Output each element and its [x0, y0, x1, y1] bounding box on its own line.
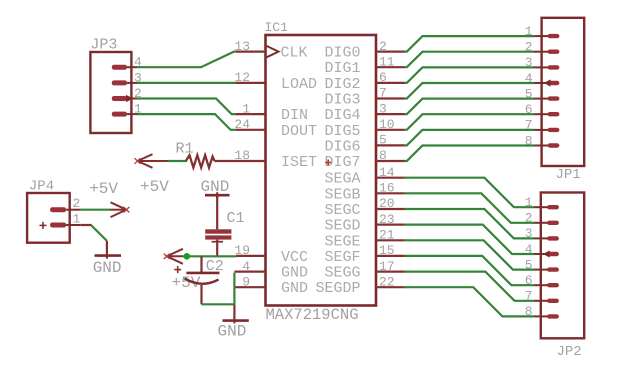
svg-text:8: 8 [379, 148, 387, 163]
IC1 pin 23 SEGD (right) [324, 212, 404, 235]
svg-text:+5V: +5V [140, 178, 169, 196]
svg-text:4: 4 [242, 259, 250, 274]
svg-text:VCC: VCC [281, 249, 308, 266]
connector JP3 [90, 52, 137, 133]
svg-text:ISET: ISET [281, 154, 317, 171]
svg-text:DIG2: DIG2 [324, 76, 360, 93]
svg-text:SEGB: SEGB [324, 186, 360, 203]
connector JP2 body [541, 193, 584, 339]
svg-text:SEGDP: SEGDP [315, 280, 360, 297]
JP2 pin 3 pad [525, 226, 559, 241]
svg-text:IC1: IC1 [265, 20, 289, 35]
svg-text:GND: GND [281, 265, 308, 282]
svg-text:14: 14 [379, 165, 395, 180]
ground symbol at JP4 [95, 241, 122, 259]
IC1 pin 6 DIG2 (right) [324, 70, 404, 93]
wire SEGDP to JP2 pin 8 [405, 287, 535, 316]
svg-text:MAX7219CNG: MAX7219CNG [266, 306, 359, 324]
svg-text:CLK: CLK [281, 45, 308, 62]
IC1 pin 22 SEGDP (right) [315, 274, 404, 297]
svg-text:2: 2 [73, 196, 81, 211]
wire DIG0 to JP1 pin 1 [405, 36, 535, 52]
svg-text:21: 21 [379, 228, 395, 243]
JP1 pin 3 pad [525, 55, 560, 70]
JP1 pin 4 pad [525, 71, 560, 87]
IC1 pin 4 GND (left) [234, 259, 308, 282]
svg-text:5: 5 [379, 133, 387, 148]
svg-text:24: 24 [234, 117, 250, 132]
capacitor C2 [174, 256, 219, 304]
svg-text:SEGG: SEGG [324, 265, 360, 282]
IC1 pin 16 SEGB (right) [324, 181, 404, 204]
svg-text:13: 13 [234, 39, 250, 54]
svg-text:1: 1 [73, 212, 81, 227]
svg-text:17: 17 [379, 259, 395, 274]
JP2 pin 5 pad [525, 257, 559, 272]
wire DIG6 to JP1 pin 7 [405, 130, 535, 146]
IC1 pin 8 DIG7 (right) [324, 148, 404, 171]
svg-text:10: 10 [379, 117, 395, 132]
wire JP3 pin 2 to IC1 DIN [137, 99, 237, 115]
wire DIG1 to JP1 pin 2 [405, 52, 535, 67]
svg-text:DIG3: DIG3 [324, 92, 360, 109]
wire DIG4 to JP1 pin 5 [405, 99, 535, 115]
supply +5V arrow (VCC net) [164, 249, 183, 264]
wire SEGE to JP2 pin 5 [405, 240, 535, 269]
wire DIG3 to JP1 pin 4 [405, 83, 535, 99]
IC1 pin 7 DIG3 (right) [324, 86, 404, 109]
svg-text:9: 9 [242, 274, 250, 289]
IC1 pin 11 DIG1 (right) [324, 54, 404, 77]
svg-text:R1: R1 [176, 141, 194, 158]
IC1 pin 9 GND (left) [234, 274, 308, 297]
svg-text:JP4: JP4 [29, 179, 54, 195]
IC1 pin 15 SEGF (right) [324, 243, 404, 266]
svg-text:SEGC: SEGC [324, 202, 360, 219]
wire DIG7 to JP1 pin 8 [405, 146, 535, 162]
wire SEGD to JP2 pin 4 [405, 225, 535, 254]
svg-text:1: 1 [242, 101, 250, 116]
svg-text:DIG1: DIG1 [324, 60, 360, 77]
svg-text:+5V: +5V [89, 180, 118, 198]
wire JP4 pin 1 to GND [80, 225, 107, 241]
JP2 pin 1 pad [525, 195, 559, 210]
svg-text:16: 16 [379, 181, 395, 196]
svg-text:DOUT: DOUT [281, 123, 317, 140]
connector JP1 body [542, 18, 585, 166]
svg-text:GND: GND [201, 178, 230, 196]
svg-text:SEGF: SEGF [324, 249, 360, 266]
IC1 pin 20 SEGC (right) [324, 196, 404, 219]
IC1 pin 19 VCC (left) [234, 243, 308, 266]
connector JP4 [27, 193, 80, 243]
svg-text:DIN: DIN [281, 107, 308, 124]
IC1 pin 21 SEGE (right) [324, 228, 404, 251]
IC1 pin 14 SEGA (right) [324, 165, 404, 188]
svg-text:JP3: JP3 [90, 37, 117, 54]
JP2 pin 4 pad [525, 242, 559, 258]
wire SEGF to JP2 pin 6 [405, 256, 535, 285]
IC1 pin 18 ISET (left) [234, 148, 317, 171]
svg-text:6: 6 [379, 70, 387, 85]
IC1 pin 24 DOUT (left) [234, 117, 317, 140]
svg-text:SEGE: SEGE [324, 233, 360, 250]
IC1 clock input marker [267, 46, 279, 57]
svg-text:GND: GND [218, 323, 247, 341]
svg-text:LOAD: LOAD [281, 76, 317, 93]
svg-text:C2: C2 [206, 258, 224, 275]
JP1 pin 7 pad [525, 118, 560, 133]
wire SEGG to JP2 pin 7 [405, 272, 535, 301]
JP2 pin 6 pad [525, 273, 559, 288]
svg-text:3: 3 [379, 101, 387, 116]
IC1 pin 1 DIN (left) [236, 101, 308, 124]
supply +5V arrow (JP4) [111, 202, 130, 217]
IC1 pin 10 DIG5 (right) [324, 117, 404, 140]
svg-text:22: 22 [379, 274, 395, 289]
svg-text:12: 12 [234, 70, 250, 85]
svg-text:JP2: JP2 [557, 344, 582, 360]
svg-text:20: 20 [379, 196, 395, 211]
capacitor C1 [205, 229, 231, 256]
svg-text:DIG6: DIG6 [324, 138, 360, 155]
svg-text:19: 19 [234, 243, 250, 258]
JP1 pin 6 pad [525, 102, 560, 117]
svg-text:7: 7 [379, 86, 387, 101]
svg-text:DIG4: DIG4 [324, 107, 360, 124]
IC1 pin 17 SEGG (right) [324, 259, 404, 282]
svg-text:23: 23 [379, 212, 395, 227]
svg-text:DIG5: DIG5 [324, 123, 360, 140]
JP1 pin 1 pad [525, 24, 560, 39]
JP2 pin 8 pad [525, 304, 559, 319]
svg-text:DIG0: DIG0 [324, 45, 360, 62]
svg-text:15: 15 [379, 243, 395, 258]
wire DIG2 to JP1 pin 3 [405, 67, 535, 83]
svg-text:GND: GND [93, 259, 122, 277]
wire C2 to GND net [202, 273, 235, 305]
wire +5V arrow to R1 [168, 160, 187, 162]
IC1 pin 3 DIG4 (right) [324, 101, 404, 124]
JP1 pin 8 pad [525, 133, 560, 148]
IC IC1 MAX7219CNG body [266, 35, 377, 306]
JP2 pin 7 pad [525, 289, 559, 304]
svg-text:SEGA: SEGA [324, 171, 360, 188]
wire DIG5 to JP1 pin 6 [405, 114, 535, 130]
svg-text:JP1: JP1 [556, 167, 581, 183]
wire +5V to IC1 VCC [183, 255, 237, 257]
ground symbol above C1 [205, 192, 230, 229]
svg-text:GND: GND [281, 280, 308, 297]
IC1 pin 13 CLK (left) [234, 39, 307, 62]
wire SEGC to JP2 pin 3 [405, 209, 535, 238]
IC1 pin 5 DIG6 (right) [324, 133, 404, 156]
JP1 pin 5 pad [525, 86, 560, 101]
svg-text:2: 2 [379, 39, 387, 54]
wire JP3 pin 1 to IC1 DOUT [137, 114, 237, 130]
IC1 pin 12 LOAD (left) [234, 70, 317, 93]
ground symbol below IC [223, 304, 249, 323]
JP1 pin 2 pad [525, 40, 560, 55]
wire SEGB to JP2 pin 2 [405, 193, 535, 223]
svg-text:SEGD: SEGD [324, 218, 360, 235]
svg-text:18: 18 [234, 148, 250, 163]
wire JP4 pin 2 to +5V [80, 209, 111, 211]
JP2 pin 2 pad [525, 211, 559, 226]
red plus marker at DIG7 [325, 160, 331, 166]
IC1 pin 2 DIG0 (right) [324, 39, 404, 62]
resistor R1 [186, 155, 236, 167]
junction dot VCC net [184, 253, 191, 260]
wire JP3 pin 3 to IC1 LOAD [137, 82, 237, 84]
svg-text:C1: C1 [227, 210, 245, 227]
svg-text:11: 11 [379, 54, 395, 69]
wire JP3 pin 4 to IC1 CLK [137, 52, 237, 68]
wire SEGA to JP2 pin 1 [405, 178, 535, 208]
supply +5V arrow (ISET net) [135, 154, 169, 168]
